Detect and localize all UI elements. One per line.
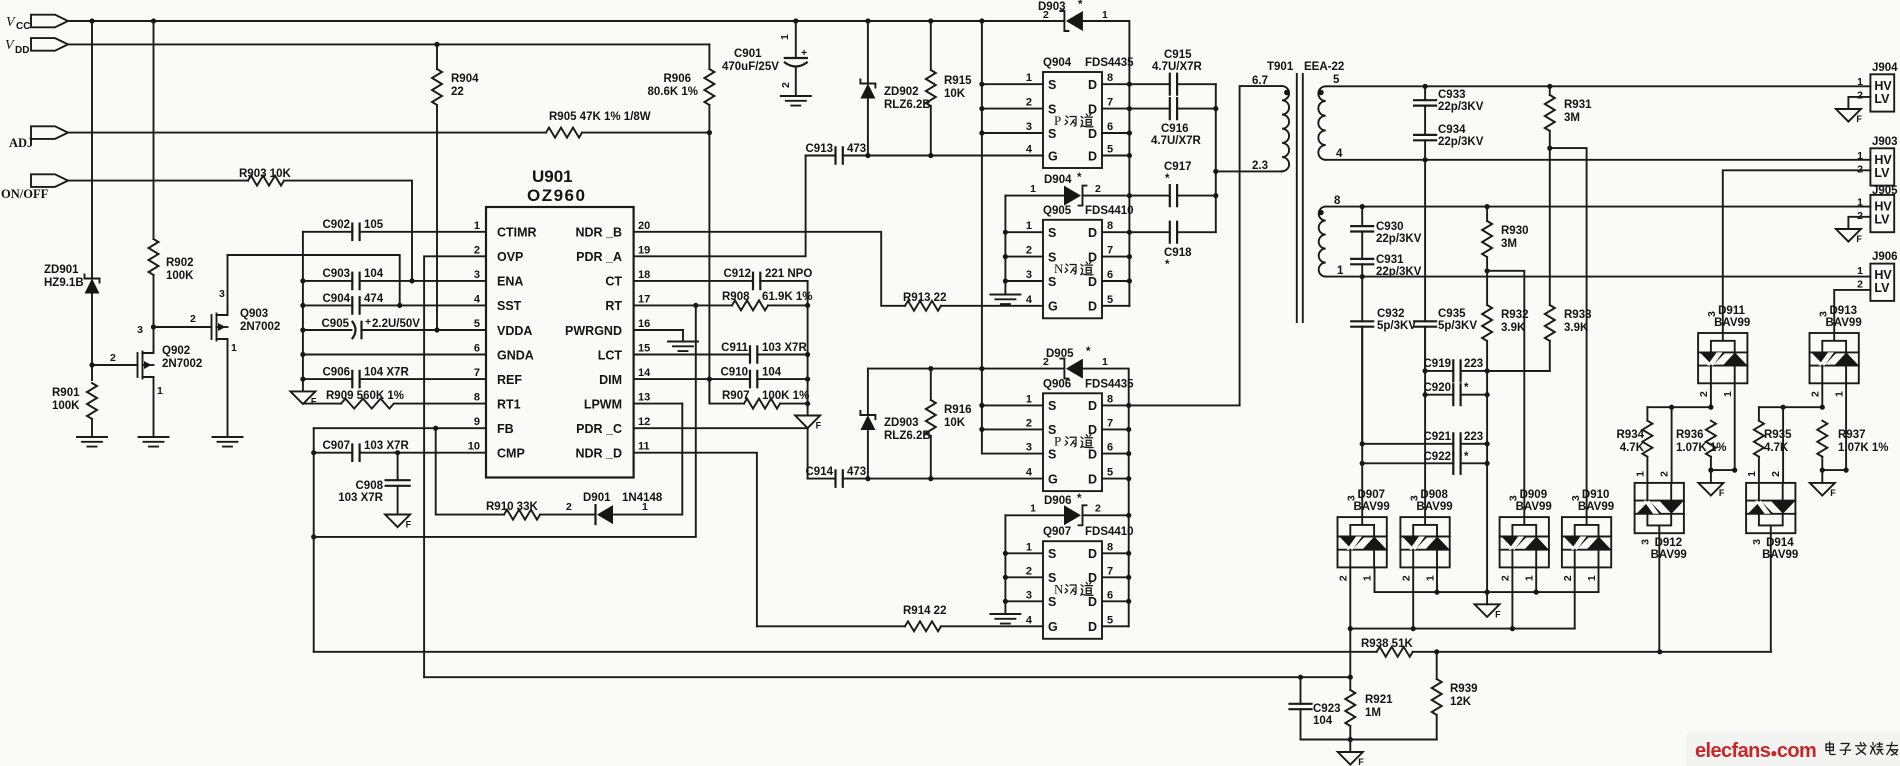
svg-text:VDDA: VDDA	[497, 324, 532, 338]
wire BAV99 pin1 bus	[1350, 567, 1598, 628]
connector J903	[1857, 136, 1897, 186]
zener ZD901	[44, 264, 100, 294]
svg-text:13: 13	[638, 392, 650, 404]
svg-text:R910 33K: R910 33K	[486, 501, 538, 513]
svg-text:elecfans●com: elecfans●com	[1695, 740, 1816, 762]
diode D911 BAV99	[1698, 305, 1750, 397]
svg-text:3: 3	[1640, 539, 1652, 545]
svg-text:Q906: Q906	[1043, 378, 1071, 390]
resistor R934	[1617, 407, 1653, 483]
svg-text:D903: D903	[1038, 1, 1066, 13]
svg-text:C902: C902	[323, 219, 351, 231]
diode D904	[1005, 172, 1132, 206]
svg-text:1: 1	[157, 385, 163, 397]
wire LPWM pin13	[634, 403, 683, 405]
svg-text:1.07K 1%: 1.07K 1%	[1676, 442, 1727, 454]
svg-text:2.2U/50V: 2.2U/50V	[372, 318, 420, 330]
connector J906	[1857, 251, 1897, 301]
wire D912 pin2 riser	[1671, 407, 1673, 483]
capacitor C903	[303, 268, 486, 289]
svg-text:C935: C935	[1438, 308, 1466, 320]
capacitor C901	[722, 18, 807, 96]
svg-text:1: 1	[1030, 503, 1036, 515]
svg-text:8: 8	[1107, 541, 1113, 553]
svg-text:LPWM: LPWM	[584, 397, 622, 411]
svg-text:16: 16	[638, 318, 650, 330]
transformer T901 EEA-22 primary	[1252, 61, 1344, 172]
svg-text:Q904: Q904	[1043, 57, 1072, 69]
svg-text:C915: C915	[1164, 49, 1192, 61]
svg-text:J903: J903	[1872, 136, 1898, 148]
capacitor C934	[1414, 124, 1484, 160]
svg-text:3.9K: 3.9K	[1564, 322, 1589, 334]
resistor R902	[149, 21, 195, 327]
svg-text:1: 1	[1857, 150, 1863, 162]
node gate Q902	[89, 362, 94, 367]
svg-text:2: 2	[190, 313, 196, 325]
svg-text:C933: C933	[1438, 89, 1466, 101]
node R930 bottom	[1485, 268, 1490, 273]
ground under R901	[77, 437, 107, 447]
svg-text:D907: D907	[1358, 489, 1386, 501]
svg-text:5: 5	[1107, 144, 1113, 156]
svg-text:2: 2	[1338, 575, 1350, 581]
connector Vdd	[5, 38, 68, 56]
svg-text:Q907: Q907	[1043, 526, 1071, 538]
wire R936/D911p1 node	[1711, 469, 1735, 471]
svg-text:10K: 10K	[944, 88, 966, 100]
svg-text:7: 7	[1107, 565, 1113, 577]
resistor R901	[52, 383, 97, 437]
resistor R915	[926, 18, 972, 158]
svg-text:GNDA: GNDA	[497, 348, 534, 362]
wire X2 to C914	[807, 428, 809, 478]
wire NDR_B to R913	[634, 232, 905, 306]
wire D914 pin3 drop	[1770, 533, 1772, 652]
svg-text:BAV99: BAV99	[1714, 317, 1750, 329]
wire OVP vertical	[424, 256, 486, 677]
svg-text:6: 6	[1107, 121, 1113, 133]
op-amp U901 OZ960 IC body	[468, 167, 651, 478]
svg-text:8: 8	[1334, 195, 1341, 207]
capacitor C919	[1424, 358, 1550, 381]
wire bus B to D908	[1424, 327, 1426, 517]
node ENA/ONOFF	[409, 278, 414, 283]
svg-text:R909 560K 1%: R909 560K 1%	[326, 390, 404, 402]
svg-text:DD: DD	[15, 45, 29, 56]
capacitor C906	[303, 367, 486, 388]
svg-text:2: 2	[1698, 391, 1710, 397]
svg-text:PDR _C: PDR _C	[576, 422, 622, 436]
diode D907 BAV99	[1338, 489, 1390, 581]
svg-text:6: 6	[1107, 589, 1113, 601]
svg-text:R936: R936	[1676, 429, 1704, 441]
wire Q906 D pins	[1102, 405, 1129, 478]
wire FB vertical	[313, 428, 315, 652]
node DIM branch	[707, 377, 712, 382]
svg-text:C921: C921	[1424, 431, 1452, 443]
resistor R914	[757, 605, 1043, 631]
svg-text:R901: R901	[52, 387, 80, 399]
svg-text:D: D	[1088, 226, 1097, 240]
svg-text:D908: D908	[1420, 489, 1448, 501]
svg-text:5p/3KV: 5p/3KV	[1438, 320, 1477, 332]
svg-text:6: 6	[474, 343, 480, 355]
svg-text:C916: C916	[1161, 123, 1189, 135]
wire bus C to ground node	[1486, 371, 1488, 592]
wire PWRGND pin16	[634, 330, 683, 342]
svg-text:474: 474	[364, 293, 384, 305]
svg-text:10: 10	[468, 441, 480, 453]
svg-text:2: 2	[780, 82, 792, 88]
svg-text:R902: R902	[166, 257, 194, 269]
svg-text:D: D	[1088, 571, 1097, 585]
transistor Q904 FDS4435	[1026, 57, 1134, 168]
ground F bottom	[1338, 740, 1365, 766]
capacitor C922	[1362, 451, 1487, 474]
svg-text:N: N	[1054, 581, 1064, 596]
svg-text:2: 2	[1562, 575, 1574, 581]
svg-text:103 X7R: 103 X7R	[762, 342, 807, 354]
resistor R936	[1676, 421, 1727, 470]
svg-text:6: 6	[1107, 442, 1113, 454]
wire D905 feed	[868, 368, 1064, 370]
svg-text:R904: R904	[451, 73, 479, 85]
node VDDA/R904	[434, 327, 439, 332]
svg-text:18: 18	[638, 269, 650, 281]
wire Q904 D pins	[1102, 84, 1129, 155]
svg-text:R908: R908	[722, 291, 750, 303]
svg-text:C901: C901	[734, 48, 762, 60]
resistor R933	[1487, 148, 1591, 371]
svg-text:*: *	[1165, 259, 1170, 271]
svg-text:D913: D913	[1830, 305, 1858, 317]
wire Q904 S pins	[982, 84, 1043, 133]
capacitor C910	[634, 367, 808, 388]
svg-text:100K: 100K	[166, 270, 194, 282]
svg-text:104: 104	[364, 268, 384, 280]
svg-text:*: *	[1086, 346, 1091, 358]
svg-text:CC: CC	[16, 21, 30, 32]
wire bus A to D907	[1361, 327, 1363, 517]
wire FB-RT link	[314, 305, 696, 537]
svg-text:R914 22: R914 22	[903, 605, 946, 617]
node C907 left	[311, 450, 316, 455]
wire GNDA	[303, 354, 486, 356]
svg-text:C923: C923	[1313, 703, 1341, 715]
svg-text:J905: J905	[1872, 185, 1898, 197]
svg-text:D: D	[1088, 78, 1097, 92]
svg-text:1: 1	[1857, 76, 1863, 88]
capacitor C916	[1129, 98, 1215, 147]
diode D912 BAV99	[1635, 471, 1687, 561]
node R902-Q902 drain	[151, 324, 156, 329]
node SST/Q903	[397, 303, 402, 308]
svg-text:C922: C922	[1424, 451, 1452, 463]
svg-text:3: 3	[474, 269, 480, 281]
svg-text:C930: C930	[1376, 221, 1404, 233]
capacitor C935	[1414, 160, 1477, 371]
svg-text:1: 1	[1424, 575, 1436, 581]
svg-text:S: S	[1048, 78, 1056, 92]
connector J904	[1857, 62, 1898, 112]
svg-text:C931: C931	[1376, 254, 1404, 266]
wire PDR_A to C913	[634, 156, 806, 257]
svg-text:2: 2	[1095, 503, 1101, 515]
resistor R937	[1817, 421, 1888, 470]
wire Vcc rail	[68, 20, 1063, 22]
svg-text:1: 1	[1026, 541, 1032, 553]
svg-text:CMP: CMP	[497, 447, 525, 461]
svg-text:*: *	[1165, 173, 1170, 185]
svg-text:V: V	[6, 15, 16, 30]
svg-text:R933: R933	[1564, 309, 1592, 321]
svg-text:FDS4410: FDS4410	[1085, 526, 1134, 538]
svg-text:D: D	[1088, 423, 1097, 437]
ground F BAV99	[1475, 592, 1502, 619]
wire Vcc S-bus	[981, 21, 983, 454]
svg-text:2: 2	[1095, 183, 1101, 195]
wire FB pin9	[314, 427, 486, 429]
svg-text:G: G	[1048, 472, 1058, 486]
diode D905	[1043, 346, 1129, 626]
wire lower switch node to 6.7	[1129, 404, 1240, 406]
svg-text:*: *	[1078, 0, 1083, 11]
svg-text:4: 4	[1026, 294, 1033, 306]
wire J906 LV to D913	[1834, 290, 1870, 333]
transistor Q906 FDS4435	[1026, 378, 1134, 491]
svg-text:R906: R906	[664, 73, 692, 85]
svg-text:3: 3	[219, 288, 225, 300]
svg-text:22p/3KV: 22p/3KV	[1376, 266, 1422, 278]
svg-text:2: 2	[1026, 417, 1032, 429]
transformer secondary bottom	[1318, 195, 1344, 277]
wire ZD901 branch	[91, 21, 93, 380]
svg-text:61.9K 1%: 61.9K 1%	[762, 291, 813, 303]
resistor R904	[432, 42, 479, 330]
svg-text:R921: R921	[1365, 694, 1393, 706]
resistor R909	[304, 390, 487, 409]
transformer core	[1297, 74, 1303, 322]
svg-text:5: 5	[1107, 467, 1113, 479]
svg-text:LCT: LCT	[598, 348, 623, 362]
svg-text:BAV99: BAV99	[1826, 317, 1862, 329]
svg-text:1: 1	[1722, 391, 1734, 397]
svg-text:3M: 3M	[1501, 238, 1517, 250]
svg-text:8: 8	[1107, 393, 1113, 405]
svg-text:1: 1	[1362, 575, 1374, 581]
svg-text:1: 1	[1102, 356, 1108, 368]
svg-text:C920: C920	[1424, 382, 1452, 394]
node Vcc-ZD901	[89, 18, 94, 23]
svg-text:2: 2	[1857, 279, 1863, 291]
svg-text:D910: D910	[1582, 489, 1610, 501]
ground F under R937	[1810, 470, 1837, 498]
svg-text:C913: C913	[806, 143, 834, 155]
svg-text:1: 1	[231, 342, 237, 354]
svg-text:1: 1	[1102, 9, 1108, 21]
wire J904 LV to ground	[1836, 97, 1871, 124]
svg-text:D: D	[1088, 620, 1097, 634]
diode D903	[1038, 0, 1129, 306]
svg-text:1: 1	[1857, 196, 1863, 208]
diode D908 BAV99	[1400, 489, 1452, 581]
wire NDR_D pin11	[634, 453, 757, 627]
svg-text:Q905: Q905	[1043, 205, 1072, 217]
wire 4 to J903 HV	[1326, 159, 1871, 161]
resistor R905	[546, 111, 651, 138]
diode D913 BAV99	[1810, 305, 1862, 397]
svg-text:S: S	[1048, 127, 1056, 141]
svg-text:D: D	[1088, 399, 1097, 413]
wire Q905 S bus to ground	[1005, 196, 1043, 295]
svg-text:3: 3	[1751, 539, 1763, 545]
capacitor C904	[303, 293, 486, 314]
svg-text:R937: R937	[1838, 429, 1866, 441]
wire D912 pin3 drop	[1658, 533, 1660, 652]
ground under Q903	[213, 437, 243, 447]
svg-text:2: 2	[1857, 89, 1863, 101]
svg-text:1: 1	[1834, 391, 1846, 397]
svg-text:3.9K: 3.9K	[1501, 322, 1526, 334]
svg-text:2: 2	[566, 501, 572, 513]
svg-text:*: *	[1464, 382, 1469, 394]
wire primary 2.3	[1216, 170, 1282, 172]
wire ADJ line	[68, 132, 709, 134]
wire R930 branch to D909	[1487, 271, 1524, 517]
svg-text:473: 473	[847, 143, 866, 155]
transistor Q905 FDS4410	[1026, 205, 1134, 318]
svg-text:2N7002: 2N7002	[162, 358, 202, 370]
zener ZD902	[860, 18, 930, 158]
capacitor C931	[1351, 254, 1422, 278]
svg-text:3M: 3M	[1564, 112, 1580, 124]
connector ON/OFF	[1, 174, 68, 201]
svg-text:D: D	[1088, 447, 1097, 461]
svg-text:C912: C912	[724, 268, 752, 280]
svg-text:5: 5	[1107, 614, 1113, 626]
capacitor C907	[314, 440, 486, 461]
svg-text:2: 2	[1770, 471, 1782, 477]
svg-text:RLZ6.2B: RLZ6.2B	[884, 99, 931, 111]
svg-text:1: 1	[1635, 471, 1647, 477]
resistor R903	[239, 168, 291, 186]
svg-text:C914: C914	[806, 466, 834, 478]
wire D914 pin2 riser	[1782, 407, 1784, 483]
svg-text:S: S	[1048, 447, 1056, 461]
wire BAV99 pin2 bus	[1350, 628, 1574, 630]
svg-text:FDS4435: FDS4435	[1085, 57, 1134, 69]
resistor R913	[903, 292, 1043, 311]
svg-text:3: 3	[1026, 269, 1032, 281]
ground F left bus	[290, 391, 317, 406]
svg-text:2: 2	[1810, 391, 1822, 397]
svg-text:221 NPO: 221 NPO	[765, 268, 812, 280]
svg-text:R931: R931	[1564, 99, 1592, 111]
svg-text:R905 47K 1% 1/8W: R905 47K 1% 1/8W	[549, 111, 651, 123]
svg-text:+: +	[365, 316, 371, 328]
svg-text:6.7: 6.7	[1252, 75, 1268, 87]
svg-text:FDS4410: FDS4410	[1085, 205, 1134, 217]
capacitor C912	[634, 268, 813, 289]
svg-text:SST: SST	[497, 299, 522, 313]
svg-text:ZD903: ZD903	[884, 417, 919, 429]
svg-text:2.3: 2.3	[1252, 160, 1268, 172]
node ADJ/R906	[707, 130, 712, 135]
svg-text:C917: C917	[1164, 161, 1192, 173]
svg-text:12: 12	[638, 416, 650, 428]
wire J905 LV to ground	[1836, 217, 1871, 244]
wire 5 to J904 HV	[1326, 85, 1871, 87]
wire Q907 S bus to ground	[1005, 515, 1043, 614]
svg-text:15: 15	[638, 343, 650, 355]
svg-text:S: S	[1048, 595, 1056, 609]
resistor R931	[1545, 86, 1592, 148]
wire node Y line	[1759, 406, 1822, 408]
svg-text:2: 2	[1400, 575, 1412, 581]
svg-text:U901: U901	[532, 167, 573, 186]
svg-text:D: D	[1088, 250, 1097, 264]
ground F under C908	[385, 515, 412, 530]
svg-text:J904: J904	[1872, 62, 1898, 74]
wire primary cap bus	[1215, 84, 1217, 232]
svg-text:CTIMR: CTIMR	[497, 226, 537, 240]
svg-text:5: 5	[474, 318, 480, 330]
svg-text:D: D	[1088, 127, 1097, 141]
svg-text:D909: D909	[1520, 489, 1548, 501]
svg-text:R935: R935	[1764, 429, 1792, 441]
svg-text:D: D	[1088, 275, 1097, 289]
wire Vdd rail	[68, 43, 709, 45]
capacitor C905 electrolytic	[303, 316, 486, 338]
diode D901 1N4148	[583, 404, 682, 524]
svg-text:100K: 100K	[52, 400, 80, 412]
wire bottom gnd bus	[1301, 739, 1437, 741]
svg-text:104 X7R: 104 X7R	[364, 367, 409, 379]
wire R937/D913p1 node	[1822, 469, 1846, 471]
svg-text:1: 1	[1746, 471, 1758, 477]
svg-text:HZ9.1B: HZ9.1B	[44, 277, 84, 289]
capacitor C915	[1129, 49, 1215, 95]
ground Q905 sources	[990, 295, 1020, 305]
svg-text:V: V	[5, 38, 15, 53]
svg-text:19: 19	[638, 244, 650, 256]
svg-text:R903 10K: R903 10K	[239, 168, 291, 180]
transformer secondary top	[1318, 74, 1343, 160]
wire Q903 gate	[154, 326, 212, 328]
ground under Q902	[139, 437, 169, 447]
svg-text:C911: C911	[721, 342, 748, 354]
svg-text:100K 1%: 100K 1%	[762, 390, 809, 402]
capacitor C908	[338, 453, 409, 515]
svg-text:C934: C934	[1438, 124, 1466, 136]
svg-text:C905: C905	[322, 318, 350, 330]
svg-text:11: 11	[638, 441, 650, 453]
svg-text:PDR _A: PDR _A	[576, 250, 622, 264]
ground PWRGND	[668, 342, 698, 352]
svg-text:1: 1	[642, 501, 648, 513]
svg-text:2: 2	[1026, 245, 1032, 257]
svg-text:C907: C907	[323, 440, 351, 452]
svg-text:R930: R930	[1501, 225, 1529, 237]
svg-text:1: 1	[1586, 575, 1598, 581]
svg-text:D: D	[1088, 547, 1097, 561]
svg-text:2N7002: 2N7002	[240, 321, 280, 333]
svg-text:4.7K: 4.7K	[1620, 442, 1645, 454]
node R931 bottom	[1547, 146, 1552, 151]
wire D911 pins to node X	[1711, 383, 1735, 470]
svg-text:FDS4435: FDS4435	[1085, 378, 1134, 390]
